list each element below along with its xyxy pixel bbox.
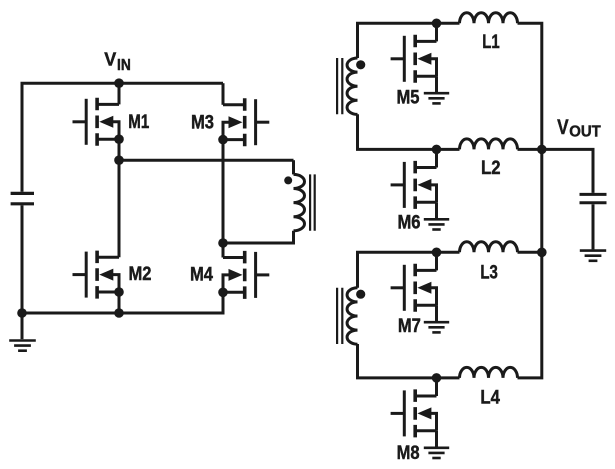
transistor M1 gate lead <box>73 120 87 123</box>
transistor M5 source stub <box>415 75 436 78</box>
svg-text:L4: L4 <box>480 387 500 408</box>
inductor L2 <box>460 139 518 150</box>
wire VOUT branch to output cap <box>542 149 593 193</box>
svg-text:M7: M7 <box>398 316 421 337</box>
transistor M4 gate bar <box>254 252 257 298</box>
transistor M7 source-to-ground lead <box>435 305 438 321</box>
transistor M8 body arrow <box>417 407 431 419</box>
node B (M3/M4 midpoint, T1 return) <box>218 238 228 248</box>
svg-text:V: V <box>557 115 569 139</box>
node VIN junction <box>114 78 124 88</box>
wire L1 to right rail <box>518 23 542 149</box>
inductor L4 <box>460 367 518 378</box>
svg-text:OUT: OUT <box>569 124 601 141</box>
transformer T3 phasing dot <box>356 290 365 299</box>
node M8 drain junction <box>432 373 442 383</box>
transistor M4 body-to-source link <box>223 275 230 292</box>
transformer T2 phasing dot <box>356 60 365 69</box>
wire M8 drain lead <box>435 378 438 396</box>
node M6 drain junction <box>432 145 442 155</box>
wire right rail lower (L3 node to L4) <box>518 252 542 378</box>
ground M8 <box>424 446 449 449</box>
transistor M5 gate lead <box>391 57 405 60</box>
transistor M6 source-to-ground lead <box>435 202 438 218</box>
wire mid node down to M2 drain <box>118 160 121 257</box>
transistor M6 channel bar (drain/body/source segments) <box>413 161 417 209</box>
transistor M3 drain stub <box>223 103 245 106</box>
transistor M2 channel bar (drain/body/source segments) <box>95 251 99 299</box>
transformer T1 primary winding <box>294 174 305 230</box>
transistor M8 source-to-ground lead <box>435 431 438 447</box>
transistor M7 gate bar <box>403 265 406 311</box>
transistor M1 body arrow <box>99 116 113 128</box>
transistor M7 body-to-source link <box>430 288 437 305</box>
transistor M3 gate lead <box>256 121 270 124</box>
transistor M2 drain stub <box>97 256 119 259</box>
ground M6 <box>424 218 449 221</box>
inductor L1 <box>460 13 518 24</box>
wire L3 to right rail <box>518 251 542 254</box>
transistor M4 source stub <box>223 291 245 294</box>
node VOUT junction <box>537 145 547 155</box>
node A (M1/M2 midpoint) <box>114 155 124 165</box>
capacitor C_IN bottom plate <box>11 202 34 205</box>
svg-text:L2: L2 <box>481 158 501 179</box>
transformer T3 secondary top lead <box>358 252 460 287</box>
transistor M8 drain stub <box>415 395 436 398</box>
wire left rail upper (VIN rail to input cap) <box>22 83 223 192</box>
transformer T1 phasing dot <box>284 176 292 184</box>
transistor M7 drain stub <box>415 269 436 272</box>
wire M3 source down to M4 drain node <box>222 140 225 243</box>
transistor M6 body-to-source link <box>430 185 437 202</box>
wire rail-to-ground stub <box>21 313 24 339</box>
transistor M1 source stub <box>97 138 119 141</box>
transistor M6 gate lead <box>391 183 405 186</box>
wire mid rail to transformer T1 <box>119 159 294 162</box>
transistor M8 channel bar (drain/body/source segments) <box>413 389 417 437</box>
ground M7 <box>424 321 449 324</box>
node M7 drain junction <box>432 248 442 258</box>
transistor M7 gate lead <box>391 286 405 289</box>
transistor M5 body arrow <box>417 53 431 65</box>
transformer T2 secondary bottom lead <box>358 114 460 149</box>
svg-text:M1: M1 <box>128 112 149 133</box>
svg-text:IN: IN <box>117 57 131 74</box>
transformer T1 primary top lead <box>292 160 295 174</box>
transistor M4 gate lead <box>256 273 270 276</box>
transistor M7 channel bar (drain/body/source segments) <box>413 264 417 312</box>
wire M3 drain lead <box>222 83 225 105</box>
transformer T3 secondary bottom lead <box>358 344 460 378</box>
wire M1 source to mid node <box>118 139 121 160</box>
transistor M8 gate bar <box>403 390 406 436</box>
node M4 source junction <box>218 288 228 298</box>
transformer T2 secondary winding <box>347 58 357 114</box>
svg-text:M4: M4 <box>190 265 213 286</box>
transistor M8 body-to-source link <box>430 413 437 430</box>
transistor M2 gate lead <box>73 273 87 276</box>
transformer T2 core <box>337 58 342 114</box>
svg-text:M8: M8 <box>397 443 420 464</box>
transistor M3 gate bar <box>254 99 257 145</box>
transistor M3 source stub <box>223 138 245 141</box>
transistor M4 channel bar (drain/body/source segments) <box>243 251 247 299</box>
transformer T3 secondary winding <box>347 288 357 344</box>
transistor M2 body arrow <box>99 269 113 281</box>
transistor M4 body arrow <box>229 269 243 281</box>
svg-text:M5: M5 <box>397 88 420 109</box>
transistor M1 gate bar <box>85 99 88 145</box>
transformer T1 core <box>310 174 315 230</box>
transistor M6 body arrow <box>417 179 431 191</box>
transformer T2 secondary top lead <box>358 23 460 58</box>
transistor M1 channel bar (drain/body/source segments) <box>95 98 99 146</box>
ground input rail <box>9 339 36 342</box>
wire right rail mid (VOUT to L3 node) <box>540 149 543 252</box>
transistor M6 drain stub <box>415 166 436 169</box>
node L3 / right rail junction <box>537 248 547 258</box>
transistor M8 gate lead <box>391 412 405 415</box>
capacitor C_OUT top plate <box>580 193 607 196</box>
wire left rail lower (input cap to ground rail) <box>21 205 24 313</box>
transistor M7 body arrow <box>417 282 431 294</box>
transistor M5 channel bar (drain/body/source segments) <box>413 35 417 83</box>
ground M5 <box>424 92 449 95</box>
node M1 source junction <box>114 134 124 144</box>
transistor M7 source stub <box>415 304 436 307</box>
wire L2 to VOUT node <box>518 148 542 151</box>
node M2 source junction <box>114 287 124 297</box>
transformer T1 primary bottom lead <box>223 231 294 243</box>
svg-text:M6: M6 <box>398 212 421 233</box>
svg-text:M2: M2 <box>129 264 152 285</box>
inductor L3 <box>460 242 518 253</box>
transformer T3 core <box>337 288 342 344</box>
transistor M5 source-to-ground lead <box>435 76 438 92</box>
transistor M1 drain stub <box>97 103 119 106</box>
transistor M2 gate bar <box>85 252 88 298</box>
node bottom rail / ground junction <box>17 308 27 318</box>
transistor M3 body-to-source link <box>223 122 230 139</box>
wire M6 drain lead <box>435 149 438 167</box>
transistor M5 gate bar <box>403 36 406 82</box>
node M5 drain junction <box>432 19 442 29</box>
wire bottom rail <box>22 292 223 313</box>
svg-text:L1: L1 <box>482 32 500 53</box>
svg-text:V: V <box>104 50 116 70</box>
node bottom rail / M2 junction <box>114 308 124 318</box>
capacitor C_OUT bottom plate <box>580 201 607 204</box>
transistor M3 channel bar (drain/body/source segments) <box>243 98 247 146</box>
svg-text:M3: M3 <box>191 113 214 134</box>
wire M1 drain lead <box>118 83 121 104</box>
transistor M8 source stub <box>415 429 436 432</box>
transistor M2 body-to-source link <box>112 275 119 292</box>
node M3 source junction <box>218 135 228 145</box>
transistor M5 drain stub <box>415 40 436 43</box>
transistor M5 body-to-source link <box>430 59 437 76</box>
transistor M1 body-to-source link <box>112 122 119 139</box>
transistor M6 gate bar <box>403 162 406 208</box>
wire M4 drain lead <box>222 243 225 258</box>
svg-text:L3: L3 <box>480 262 498 283</box>
capacitor C_IN top plate <box>11 192 34 195</box>
transistor M6 source stub <box>415 201 436 204</box>
wire M7 drain lead <box>435 252 438 270</box>
transistor M3 body arrow <box>229 116 243 128</box>
wire M5 drain lead <box>435 23 438 41</box>
ground output cap <box>580 249 606 252</box>
transistor M2 source stub <box>97 291 119 294</box>
transistor M4 drain stub <box>223 256 245 259</box>
wire output cap to ground <box>592 204 595 249</box>
wire M2 source to bottom rail <box>118 292 121 313</box>
